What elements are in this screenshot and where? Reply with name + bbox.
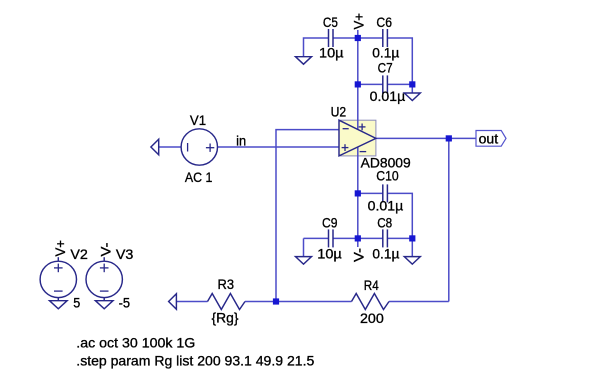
svg-text:0.1µ: 0.1µ [372, 46, 399, 61]
svg-text:0.01µ: 0.01µ [370, 89, 406, 104]
svg-text:V-: V- [99, 243, 114, 257]
svg-text:V1: V1 [190, 113, 206, 128]
svg-text:in: in [236, 133, 246, 148]
svg-text:10µ: 10µ [317, 247, 342, 262]
svg-text:U2: U2 [331, 105, 347, 120]
svg-text:0.1µ: 0.1µ [372, 247, 399, 262]
svg-text:C7: C7 [378, 61, 393, 76]
svg-text:R4: R4 [364, 278, 379, 293]
svg-text:C10: C10 [376, 169, 399, 184]
svg-text:out: out [479, 131, 499, 146]
svg-text:10µ: 10µ [319, 46, 344, 61]
svg-text:AC 1: AC 1 [185, 170, 213, 185]
svg-text:C6: C6 [376, 15, 392, 30]
svg-text:5: 5 [73, 296, 80, 311]
svg-text:C8: C8 [377, 216, 392, 231]
svg-text:V+: V+ [53, 240, 68, 257]
svg-text:V2: V2 [70, 247, 88, 262]
svg-text:C5: C5 [323, 15, 338, 30]
svg-text:V+: V+ [352, 13, 367, 30]
svg-text:.ac oct 30 100k 1G: .ac oct 30 100k 1G [76, 335, 195, 350]
svg-text:.step param Rg list 200 93.1 4: .step param Rg list 200 93.1 49.9 21.5 [76, 354, 314, 369]
svg-text:{Rg}: {Rg} [212, 311, 239, 326]
svg-text:0.01µ: 0.01µ [368, 198, 404, 213]
svg-text:V-: V- [352, 248, 367, 262]
svg-text:R3: R3 [218, 277, 235, 292]
svg-text:V3: V3 [116, 247, 134, 262]
svg-text:200: 200 [360, 311, 384, 326]
svg-text:-5: -5 [119, 296, 131, 311]
svg-text:C9: C9 [322, 216, 338, 231]
